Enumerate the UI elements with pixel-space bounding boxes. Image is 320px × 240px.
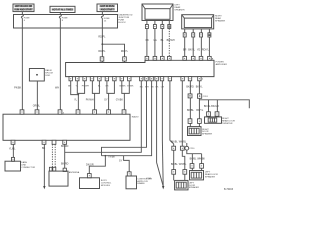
svg-text:PK/BK: PK/BK (14, 86, 21, 89)
ground G303 arrow (146, 178, 164, 189)
left rear speaker (142, 4, 185, 21)
svg-text:HOT AT ALL TIMES: HOT AT ALL TIMES (52, 9, 73, 12)
svg-text:BK/BL: BK/BL (171, 140, 178, 143)
amplifier top pins for right rear speaker (183, 56, 214, 60)
wire: amp to left door speaker +, BK/BL (170, 81, 178, 146)
wire: C201 to right door speaker pin 1, BK/BL (187, 98, 194, 127)
wire: fuse F4 to radio pin 1, PK/BK (14, 18, 22, 110)
left rear speaker pin 3 (161, 21, 164, 29)
wire: drop to body control module (86, 156, 105, 178)
svg-text:WH: WH (145, 86, 149, 88)
svg-text:SPEAKER: SPEAKER (215, 19, 226, 22)
svg-text:BK/BL: BK/BL (190, 158, 197, 161)
wire: left rear speaker shield drain, BR/WH (dashed) (167, 29, 175, 57)
svg-text:TN/BK: TN/BK (108, 155, 115, 158)
right rear speaker (182, 15, 226, 29)
left rear speaker pin 1 (145, 21, 148, 29)
svg-text:RD/PL: RD/PL (98, 50, 106, 53)
splice S201 (29, 69, 53, 82)
svg-text:RUN AND START: RUN AND START (14, 8, 33, 11)
svg-text:GY/BK: GY/BK (116, 98, 124, 101)
svg-text:G303: G303 (146, 178, 152, 180)
amplifier top pin: RD/PL feed (100, 57, 104, 61)
amplifier bottom pins row (69, 77, 204, 81)
svg-text:GY: GY (119, 160, 123, 163)
svg-text:ANTENNA: ANTENNA (69, 171, 80, 174)
svg-text:RD/YL: RD/YL (202, 48, 210, 51)
wire: left rear speaker to amplifier, LG (154, 29, 157, 57)
wire: amp pair 4 merge (GY/BK) to radio (116, 81, 130, 110)
fuse F4 (21, 15, 30, 22)
svg-text:AMPLIFIER: AMPLIFIER (216, 63, 228, 66)
svg-text:YE: YE (197, 48, 201, 51)
wire: RD/PL branch to amplifier pin B, RD/YL (101, 43, 128, 62)
bus wire B2: amp to antenna area (65, 81, 142, 153)
svg-text:BK/RD: BK/RD (186, 86, 194, 89)
amplifier U1 (power amplifier) (66, 60, 228, 76)
svg-text:SPEAKER: SPEAKER (174, 8, 185, 11)
wire: amp pair 3 merge (GY) to radio (104, 81, 114, 110)
svg-text:RD/YL: RD/YL (121, 50, 129, 53)
fuse F8 (59, 15, 68, 22)
wire: step bus to ABS controller, GY (119, 156, 131, 176)
svg-text:BK: BK (42, 147, 46, 150)
svg-text:BK/BL: BK/BL (171, 163, 178, 166)
wire: right rear speaker to amplifier, BR (183, 37, 187, 56)
body control module (80, 178, 113, 189)
svg-text:SPEAKER: SPEAKER (205, 175, 216, 178)
wire: amp to C201 connector right, BK/YL (196, 81, 203, 94)
svg-text:RD/PL: RD/PL (98, 35, 106, 38)
svg-text:RADIO: RADIO (132, 116, 139, 119)
wire: connector to left door speaker pin 1 (171, 150, 178, 180)
wire: amp ground straight (161, 81, 163, 140)
left rear speaker pin 4 (168, 21, 171, 29)
radio top pins (20, 110, 126, 115)
svg-text:OR/BL: OR/BL (33, 104, 41, 107)
svg-text:BR/WH: BR/WH (167, 39, 175, 42)
svg-text:BL/BK: BL/BK (119, 85, 126, 87)
svg-text:BK/YL: BK/YL (188, 48, 195, 51)
svg-text:WH: WH (55, 86, 59, 89)
svg-text:SPEAKER: SPEAKER (189, 186, 200, 189)
connector pin C300-1 (172, 146, 176, 150)
svg-text:YL/BL: YL/BL (9, 148, 16, 151)
svg-text:HOT IN RUN: HOT IN RUN (100, 6, 114, 8)
bus wire B1: amp west to BCM drop (102, 81, 147, 156)
label box: HOT IN RUN AND START (97, 4, 118, 12)
wire: fuse F15 to amplifier, RD/PL (98, 18, 106, 58)
pin center dots (13, 58, 218, 176)
left rear speaker pin 2 (153, 21, 156, 29)
wire: radio to antenna module, BK/RD (61, 144, 69, 171)
wire: connector to left rear door speaker feed (187, 150, 206, 163)
svg-text:PK: PK (146, 39, 150, 42)
svg-text:BK/RD: BK/RD (61, 145, 69, 148)
wire: stub box B to fuse block (59, 13, 61, 16)
svg-text:C201: C201 (203, 96, 209, 98)
wire: amp to left door speaker -, WH/BL (179, 81, 187, 146)
svg-text:HOT IN ACC OR: HOT IN ACC OR (15, 5, 33, 8)
svg-text:LG: LG (154, 39, 157, 42)
svg-text:BK/GR: BK/GR (211, 105, 219, 108)
wire: fuse F8 to radio pin 3, WH (55, 18, 60, 110)
wire: radio to DLC, YL/BL (9, 144, 16, 161)
radio bottom pins (11, 140, 67, 144)
amplifier bottom pin labels (68, 85, 164, 88)
wire: C201 to right door speaker pin 2, BK/YL (196, 98, 203, 126)
svg-text:MODULE: MODULE (101, 185, 111, 187)
right rear door tweeter pins (207, 112, 219, 116)
wire: branch to right rear door tweeter (199, 100, 249, 112)
svg-text:BLOCK: BLOCK (118, 22, 126, 24)
svg-text:SPEAKER: SPEAKER (202, 133, 213, 136)
svg-text:S201: S201 (45, 75, 51, 77)
svg-text:BRAKE: BRAKE (137, 182, 145, 185)
svg-text:GY: GY (104, 98, 108, 101)
fuse F15 (101, 15, 110, 23)
wire: amp pair 2 merge (PK/WH) to radio (86, 81, 100, 110)
amplifier top pins for left rear speaker (145, 56, 171, 60)
radio (3, 114, 139, 140)
wire: radio antenna coax (dashed) (49, 144, 55, 171)
left rear door speaker pins (190, 164, 203, 171)
svg-text:TWEETER: TWEETER (222, 123, 233, 125)
wire: splice to radio pin 2, OR/BL (33, 81, 41, 110)
left door speaker (175, 180, 200, 190)
wire: left rear speaker to amplifier, BL (161, 29, 165, 57)
right rear door tweeter (205, 117, 236, 125)
svg-text:B-70463: B-70463 (224, 188, 234, 191)
wire: radio ground BK (42, 144, 46, 186)
wire: amp ground slant (156, 81, 158, 163)
wire: connector to left door speaker pin 2 (179, 150, 187, 180)
wire: amp BK joins pair 1 (71, 81, 79, 96)
svg-text:BK/RD: BK/RD (61, 163, 69, 166)
wire: stub box A to fuse block (21, 12, 23, 15)
ground G200 arrow (43, 186, 45, 189)
svg-text:BR: BR (183, 48, 187, 51)
wire: right rear speaker to amplifier, RD/YL (202, 37, 210, 56)
left rear door speaker (190, 171, 219, 180)
right door speaker (188, 127, 213, 136)
svg-text:TN: TN (151, 86, 154, 88)
svg-text:C210: C210 (189, 148, 195, 150)
svg-text:WH/BK: WH/BK (197, 158, 205, 161)
underhood fuse block (14, 15, 133, 29)
svg-text:WH/BL: WH/BL (179, 140, 187, 143)
svg-text:GY/BK: GY/BK (127, 85, 134, 87)
svg-text:WH/BL: WH/BL (179, 163, 187, 166)
wire: left rear speaker to amplifier, PK (146, 29, 150, 57)
connector C201-1 (188, 94, 192, 98)
svg-text:BK/BL: BK/BL (204, 105, 211, 108)
right rear speaker pin 3 (200, 29, 203, 37)
label box: HOT IN ACC OR RUN AND START (13, 4, 34, 12)
connector C201-2 (198, 94, 209, 98)
svg-text:BK/YL: BK/YL (196, 86, 203, 89)
bus wire B3: amp west lower (102, 81, 152, 159)
wire: right rear speaker to amplifier, BK/YL (188, 37, 195, 56)
svg-text:BK/BL: BK/BL (187, 109, 194, 112)
right rear speaker pin 2 (192, 29, 195, 37)
svg-text:AND START: AND START (101, 8, 115, 11)
wire: amp to C201 connector right, BK/RD (186, 81, 194, 94)
svg-text:PK/WH: PK/WH (86, 98, 94, 101)
svg-text:PK/WH: PK/WH (82, 85, 89, 87)
wire: right rear speaker to amplifier, YE (197, 37, 201, 56)
svg-text:CONNECTOR: CONNECTOR (21, 167, 35, 169)
antenna module (49, 171, 80, 186)
label box: HOT AT ALL TIMES (50, 6, 75, 12)
controller antilock brake (126, 176, 152, 189)
right rear speaker pin 1 (183, 29, 186, 37)
data link connector (5, 161, 36, 171)
wire: stub box C to fuse block (101, 12, 103, 15)
connector pin C300-2 (180, 146, 184, 150)
svg-text:BK/YL: BK/YL (196, 109, 203, 112)
connector pin C300-3 (185, 143, 195, 150)
wire: amp pair 1 merge (YL) to radio (74, 81, 85, 110)
right rear speaker pin 4 (208, 29, 211, 37)
svg-text:DK/GR: DK/GR (86, 164, 94, 167)
